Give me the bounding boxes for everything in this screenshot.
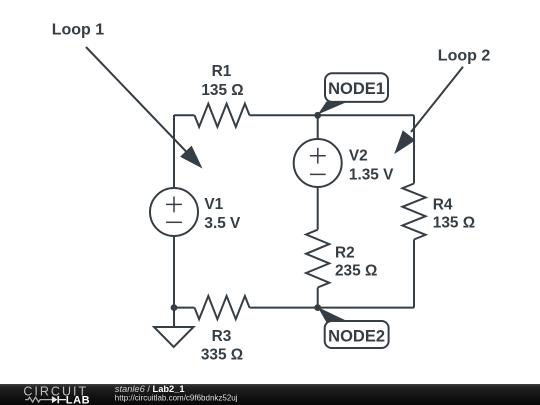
- label R2: [335, 244, 377, 279]
- svg-text:LAB: LAB: [66, 395, 90, 405]
- label V1: [204, 196, 241, 232]
- annotation Loop 1 arrow: [86, 47, 203, 169]
- node dot ground junction: [171, 304, 178, 311]
- svg-text:135 Ω: 135 Ω: [433, 215, 475, 232]
- label R1: [201, 63, 243, 99]
- wire left vertical (top segment): [173, 115, 175, 188]
- svg-text:Loop 2: Loop 2: [438, 48, 491, 65]
- svg-text:1.35 V: 1.35 V: [349, 167, 394, 184]
- ground stem: [173, 308, 175, 327]
- svg-text:V2: V2: [349, 148, 368, 165]
- wire top horizontal left lead: [174, 114, 195, 116]
- wire right vertical lower: [413, 240, 415, 308]
- annotation Loop 2 arrow: [394, 67, 463, 154]
- node dot NODE2 junction: [314, 304, 321, 311]
- svg-text:335 Ω: 335 Ω: [201, 346, 243, 363]
- svg-text:Loop 1: Loop 1: [52, 22, 105, 39]
- svg-text:135 Ω: 135 Ω: [201, 82, 243, 99]
- voltage source V2: [294, 139, 342, 187]
- wire V1 to bottom node: [173, 236, 175, 308]
- svg-text:R2: R2: [335, 244, 355, 261]
- wire bottom horizontal right segment: [250, 307, 415, 309]
- resistor R4: [402, 184, 425, 240]
- footer logo diode: [52, 396, 66, 403]
- wire V2 to R2: [317, 187, 319, 230]
- label V2: [349, 148, 394, 184]
- node label NODE2: [318, 307, 389, 348]
- resistor R1: [195, 104, 250, 127]
- svg-text:3.5 V: 3.5 V: [204, 215, 241, 232]
- svg-text:R4: R4: [433, 196, 453, 213]
- wire top horizontal right segment: [250, 114, 415, 116]
- svg-text:235 Ω: 235 Ω: [335, 263, 377, 280]
- svg-text:R1: R1: [212, 63, 232, 80]
- wire right vertical upper: [413, 115, 415, 183]
- footer logo resistor zigzag: [25, 397, 52, 402]
- wire middle vertical upper lead to V2: [317, 115, 319, 139]
- wire R2 to bottom node: [317, 288, 319, 308]
- resistor R2: [306, 230, 329, 288]
- svg-text:NODE1: NODE1: [328, 80, 385, 98]
- wire bottom left lead: [174, 307, 195, 309]
- voltage source V1: [150, 188, 198, 236]
- node label NODE1: [318, 73, 388, 114]
- svg-text:NODE2: NODE2: [328, 327, 385, 345]
- resistor R3: [195, 296, 250, 319]
- label R3: [201, 328, 243, 364]
- label R4: [433, 196, 475, 231]
- svg-text:http://circuitlab.com/c9f6bdnk: http://circuitlab.com/c9f6bdnkz52uj: [115, 394, 238, 403]
- footer bar: [0, 384, 540, 405]
- node dot NODE1 junction: [314, 112, 321, 119]
- ground: [154, 327, 194, 347]
- svg-text:R3: R3: [212, 328, 232, 345]
- svg-text:V1: V1: [204, 196, 223, 213]
